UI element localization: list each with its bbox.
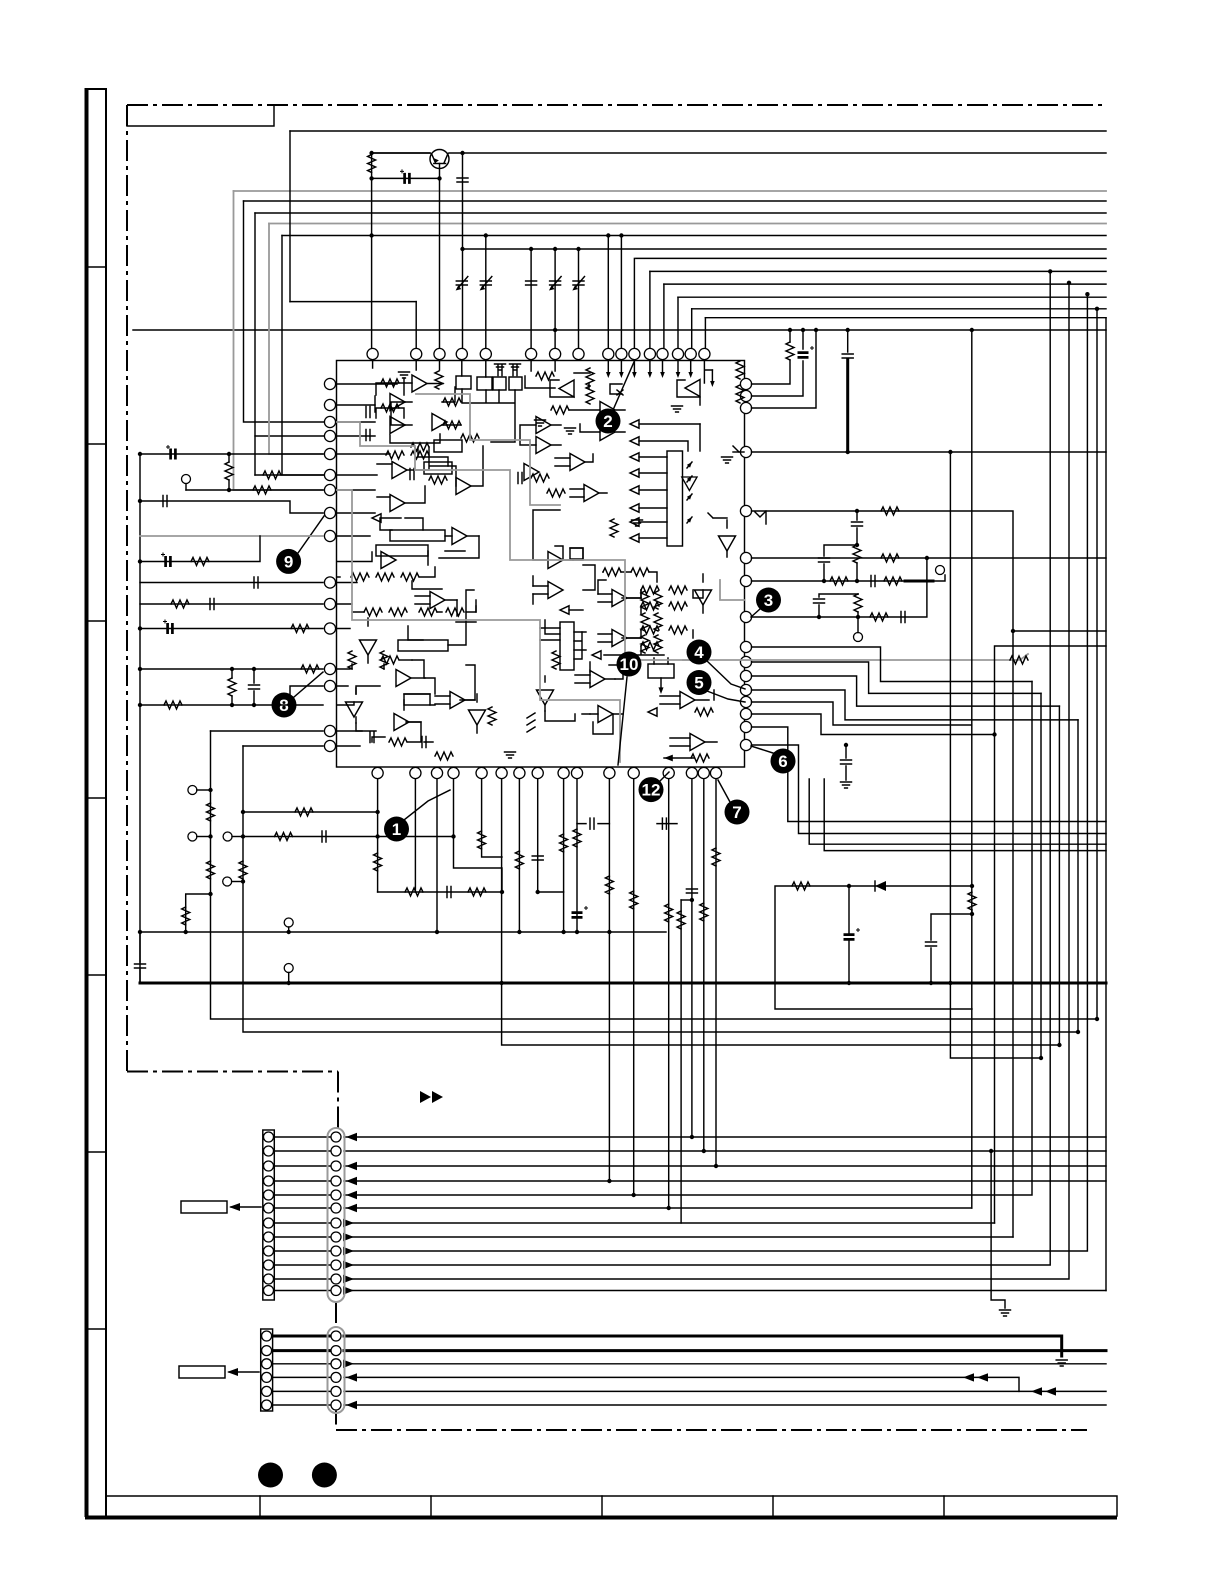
rail y932 (140, 931, 666, 933)
board boundary dash-dot bottom-left step (127, 1072, 338, 1130)
svg-text:4: 4 (694, 643, 704, 662)
wire pin746 branch (243, 745, 323, 747)
terminal TP rail983 (284, 964, 293, 973)
wire pin669 branch (140, 668, 323, 670)
resistor R horiz 262 (253, 486, 271, 494)
connector CN2 row3 (273, 1363, 1106, 1365)
terminal block lower-left (182, 786, 247, 935)
wire pin662 staircase (752, 662, 1042, 693)
wire pin582 branch (140, 582, 323, 584)
trimmer capacitor CT3 (549, 277, 561, 291)
wire pin686 stub (290, 686, 323, 705)
connector CN2 row4 (273, 1377, 1019, 1391)
wire row y1045 (502, 983, 1060, 1045)
capacitor C hang row745 (841, 760, 852, 764)
capacitor C pin501 (163, 496, 167, 507)
vertical trunk x991 with ground (991, 1151, 1005, 1308)
ground CN2 row1 (1056, 1360, 1067, 1366)
resistor R row812 (295, 808, 313, 816)
wire pin501 branch (140, 501, 323, 513)
capacitor C (526, 281, 537, 285)
wire row631 (1013, 630, 1106, 632)
wire pin731 branch (211, 730, 324, 732)
wire row y1032 (243, 746, 1078, 1032)
under-IC: cap row 837 (657, 823, 677, 825)
connector CN1 arrows incoming (346, 1133, 357, 1212)
IC left pins (324, 378, 335, 751)
right cluster: pins 384-408 supply (752, 328, 819, 408)
wire pin536 branch (140, 535, 323, 537)
wire vertical x485 (485, 236, 487, 349)
diode D1 (875, 881, 886, 891)
wire vertical x462 (462, 153, 464, 348)
wire left nest verticals to IC left pins (234, 131, 417, 490)
IC interior: selector arrow column (630, 420, 700, 542)
ground trunk x991 (1000, 1310, 1011, 1316)
wire row851 (824, 779, 1106, 851)
IC interior: lower-left stage (346, 618, 516, 760)
IC bottom pins (372, 767, 722, 778)
svg-text:3: 3 (764, 591, 773, 610)
under-IC: pin519 drop (518, 779, 520, 932)
connector CN2 row6 (273, 1404, 1106, 1406)
wire pin647 staircase (752, 647, 1033, 682)
resistor R row836 (275, 833, 293, 841)
IC interior: gray path D to right (683, 580, 1028, 660)
resistor R pin604 (171, 600, 189, 608)
resistor R row511 (881, 507, 899, 515)
connector CN2 pin circles right (331, 1331, 341, 1410)
wire pin705 branch (140, 704, 323, 706)
wire pin604 branch (140, 603, 323, 605)
badge 8 (272, 672, 324, 718)
IC interior: resistor texture column (603, 568, 662, 653)
resistor R row617 (870, 613, 888, 621)
IC right pins (740, 378, 751, 750)
svg-text:6: 6 (778, 752, 787, 771)
wire pin617 row (752, 558, 927, 617)
capacitor C row617 (901, 612, 905, 623)
IC interior: right-center amps (592, 452, 744, 762)
label box CN1 ref (181, 1201, 261, 1213)
resistor R pin705 (164, 701, 182, 709)
resistor R vert 232 (228, 678, 236, 696)
connector CN2 wires row1 thick (273, 1336, 1062, 1356)
IC interior: gray signal path B (337, 490, 620, 762)
capacitor C (polarized, Q1) (400, 169, 409, 184)
alignment mark dots (258, 1463, 283, 1488)
vertical riser x1032 (344, 682, 1032, 1196)
connector CN1 wires rows 7-12 (274, 1137, 344, 1291)
wire pin452 row (752, 451, 1107, 453)
wire top pin drops x608 x621 (608, 236, 621, 349)
under-IC: cap pair row 823 (590, 818, 594, 829)
capacitor C (polarized) pin454 (166, 445, 175, 460)
badge 2 (596, 362, 635, 434)
under-IC: pin453 drop (454, 779, 503, 892)
wire vertical x372 pin to bus (371, 236, 373, 349)
vertical riser x1059 (1058, 706, 1060, 1045)
IC interior: interconnect wires upper-left (337, 361, 622, 536)
svg-text:5: 5 (694, 674, 703, 693)
wire pin454 branch (140, 453, 323, 455)
under-IC: pin563 drop (563, 779, 565, 932)
arrows mid row4 (963, 1373, 974, 1381)
vertical riser x1078 (1077, 720, 1079, 1032)
IC interior: block output arrows (687, 461, 694, 523)
wire row646 (995, 646, 1107, 1223)
sheet margin left bar (87, 88, 107, 1517)
capacitor C hang row558 (819, 558, 830, 562)
wire pin581 row (752, 580, 906, 582)
wire pin628 branch (140, 628, 323, 630)
resistor R row581 (830, 577, 848, 585)
wire pin702 staircase (752, 702, 972, 725)
under-IC: pin501 drop (501, 779, 503, 983)
IC top pins (367, 348, 710, 359)
under-IC: pin377 drop (377, 779, 379, 892)
ground pin452 inside stub (733, 446, 739, 452)
region outline step top-left (127, 105, 274, 126)
IC interior: gray signal path C (416, 394, 560, 505)
rail y983 thick (140, 982, 1106, 985)
capacitor C hang row617 (814, 599, 825, 603)
wire pin727 row (752, 727, 1107, 822)
wire row y1019 (211, 731, 1098, 1019)
badge 12 (639, 772, 670, 802)
wire left feed bus x140 (139, 454, 141, 983)
terminal TP row617 (854, 633, 863, 642)
badge 5 (687, 670, 746, 702)
under-IC: pin537 drop (538, 779, 564, 892)
IC interior: register block (667, 451, 683, 546)
badge 10 (617, 652, 642, 766)
resistor R pin561 (191, 558, 209, 566)
transistor Q1 (430, 150, 449, 169)
junction dots top cluster (369, 151, 623, 332)
capacitor C (polarized) pin628 (163, 620, 172, 635)
vertical trunk x971 (971, 330, 973, 886)
wire pin490 branch (186, 489, 323, 491)
board boundary dash-dot top (127, 104, 1107, 106)
wire bus top lines (133, 131, 1106, 330)
IC interior: interconnect wires center-right (533, 510, 703, 734)
wire pin714 staircase (752, 714, 995, 735)
capacitor C hang row511 (852, 522, 863, 526)
vertical riser x1087 (344, 294, 1087, 1251)
vertical riser x1106 (1105, 318, 1107, 1291)
trimmer capacitor CT2 (480, 277, 492, 291)
under-IC: pin577 drop (576, 779, 578, 932)
wire pin676 staircase (752, 676, 1060, 706)
terminal TP rail932 (284, 918, 293, 927)
vertical riser x1050 (344, 271, 1050, 1265)
IC interior: filter stage mid-left (337, 440, 607, 664)
capacitor C (Q1 collector decouple) (457, 178, 468, 182)
resistor R sub (968, 892, 976, 910)
connector CN1 row extensions x>344 (344, 1137, 1106, 1291)
wire row y1058 (950, 452, 1041, 1058)
svg-text:10: 10 (620, 655, 639, 674)
resistor R hang row511 (853, 545, 861, 563)
IC interior: op-amp bank upper-left (366, 364, 625, 512)
resistor R pin669 (301, 665, 319, 673)
wire top pin bends right x634-x705 (634, 258, 705, 348)
svg-text:2: 2 (603, 412, 612, 431)
resistor R row558 (881, 554, 899, 562)
wire pin475 branch (255, 474, 323, 476)
badge 3 (751, 588, 781, 618)
IC U1 body (337, 361, 745, 768)
fast-forward mark (420, 1091, 443, 1103)
under-IC: pin668 drop long (668, 779, 670, 1208)
connector CN1 pin circles right (331, 1132, 341, 1296)
under-IC: pin437 drop to rail932 (436, 779, 438, 932)
capacitor C pin582 (254, 577, 258, 588)
thick stub row581 (905, 580, 933, 583)
under-IC: rail y892 (378, 891, 502, 893)
capacitor C+ right supply (798, 346, 815, 357)
wire CN2 bottom stub (335, 1411, 337, 1424)
under-IC: pin481 drop (482, 779, 502, 857)
trimmer capacitor CT1 (456, 277, 468, 291)
badge 6 (751, 746, 796, 774)
power sub-circuit D1 (775, 881, 976, 1009)
vertical riser x1097 (1096, 309, 1098, 1019)
wire Q1 collector row (372, 152, 430, 154)
svg-text:12: 12 (642, 781, 661, 800)
node dots on x140 (138, 452, 142, 934)
resistor R hang row617 (854, 594, 862, 612)
capacitor C+ sub (844, 928, 861, 939)
IC interior: center stages (527, 546, 623, 732)
connector CN1 arrows outgoing (343, 1219, 354, 1295)
badge 7 (718, 780, 750, 825)
capacitor C thick drop x847 (842, 328, 853, 454)
resistor R right supply (786, 342, 794, 360)
wire pin561 branch (140, 536, 260, 562)
capacitor C vert 254 (249, 685, 260, 689)
capacitor C row836 (322, 831, 326, 842)
terminal TP row581 (936, 566, 945, 575)
IC interior: ground/arrow details upper mid (617, 361, 744, 412)
IC interior: gray signal path A (337, 422, 700, 660)
label box CN2 ref (179, 1366, 259, 1378)
under-IC: pin415 drop (414, 779, 416, 892)
under-IC: pin633 drop long (633, 779, 635, 1195)
capacitor C left end rail983 (135, 964, 146, 968)
board boundary dash-dot bottom (336, 1429, 1087, 1431)
badge 4 (687, 640, 746, 690)
svg-text:9: 9 (284, 552, 293, 571)
under-IC: resistor 681 (680, 900, 682, 1223)
connector CN1 pin circles left (264, 1132, 274, 1296)
capacitor C (polarized) pin561 (161, 553, 170, 568)
trimmer capacitor CT4 (572, 277, 584, 291)
board boundary dash-dot connector column (335, 1302, 337, 1424)
connector CN2 pin circles left (262, 1331, 272, 1410)
vertical riser x1041 (1040, 693, 1042, 1058)
resistor R vert 229 (225, 462, 233, 480)
resistor R pin628 (291, 625, 309, 633)
wire pin511 row (752, 511, 1014, 1237)
wire pin745 row (752, 745, 1107, 834)
wire verticals trimmer row to pins (531, 249, 578, 348)
badge 1 (384, 790, 450, 842)
under-IC: pin691 drop long (691, 779, 693, 1137)
under-IC: pin716 drop long (715, 779, 717, 1166)
wire row844 (809, 779, 1106, 844)
capacitor C row581 (871, 576, 875, 587)
wire row y812 (243, 811, 378, 813)
svg-text:7: 7 (732, 803, 741, 822)
IC interior: interconnect wires mid (337, 536, 479, 746)
connector CN2 body (261, 1327, 345, 1413)
connector CN1 body (263, 1128, 345, 1302)
wire pin690 staircase (752, 690, 1079, 720)
connector CN2 row5 (273, 1390, 1106, 1392)
under-IC: pin609 drop (608, 779, 610, 1181)
sheet margin bottom bar (85, 1496, 1117, 1518)
connector CN2 row2 thick (273, 1349, 1106, 1352)
badge 9 (276, 516, 324, 574)
resistor R (Q1 base bias) (368, 155, 376, 173)
under-IC: pin703 drop long (703, 779, 705, 1151)
wire Q1 base row (372, 153, 440, 348)
triangle buffer left of pin511 (682, 477, 766, 524)
terminal TP (182, 475, 191, 484)
resistor R row581b (884, 577, 902, 585)
capacitor C sub (926, 942, 937, 946)
board boundary dash-dot left (126, 105, 128, 1072)
arrows mid row5 (1031, 1387, 1042, 1395)
vertical riser x1069 (344, 283, 1069, 1279)
IC interior: input stub arrows under top pins (606, 361, 715, 387)
capacitor C pin604 (210, 599, 214, 610)
wire row y836 (243, 836, 454, 838)
wire pin558 row (752, 557, 1107, 559)
